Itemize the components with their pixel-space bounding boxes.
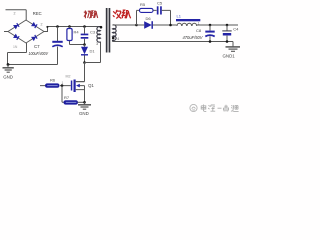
svg-text:1N: 1N bbox=[13, 45, 18, 49]
capacitor C4 output ceramic bbox=[222, 25, 231, 42]
polarity dot primary bbox=[100, 26, 103, 29]
wire secondary bottom rail bbox=[113, 41, 234, 43]
transistor Q1 MOSFET bbox=[71, 80, 85, 103]
junction node D6 anode bbox=[135, 24, 138, 27]
svg-text:C4: C4 bbox=[233, 27, 239, 32]
wire secondary top to D6 bbox=[113, 24, 137, 26]
junction node clamp R tap bbox=[68, 25, 71, 28]
transformer secondary winding bbox=[113, 25, 117, 42]
svg-text:3: 3 bbox=[96, 42, 98, 46]
svg-text:C3: C3 bbox=[90, 30, 96, 35]
svg-text:Q1: Q1 bbox=[88, 83, 94, 88]
diode D1 clamp bbox=[81, 45, 88, 63]
polarity dot secondary bbox=[112, 37, 115, 40]
svg-text:1: 1 bbox=[62, 81, 64, 85]
junction node C4 bottom bbox=[226, 40, 229, 43]
svg-text:C5: C5 bbox=[157, 1, 163, 6]
wire C7 branch bbox=[57, 27, 59, 65]
ground GND left bbox=[3, 65, 14, 73]
svg-text:GND: GND bbox=[3, 75, 13, 80]
junction node drain bbox=[83, 61, 86, 64]
svg-text:2: 2 bbox=[14, 12, 16, 16]
svg-text:GND1: GND1 bbox=[223, 54, 236, 59]
wire bridge output to top rail bbox=[44, 27, 101, 33]
svg-text:R5: R5 bbox=[140, 2, 146, 7]
junction node snubber-diode bbox=[169, 24, 172, 27]
transformer primary winding bbox=[97, 27, 101, 43]
wire drain jog to primary bottom bbox=[85, 42, 101, 63]
watermark logo circle bbox=[190, 104, 197, 111]
bridge rectifier REC diamond outline bbox=[8, 20, 44, 43]
svg-text:4: 4 bbox=[117, 37, 119, 41]
capacitor C8 output electrolytic bbox=[205, 25, 214, 42]
svg-text:GND: GND bbox=[79, 111, 89, 116]
svg-text:C7: C7 bbox=[34, 44, 40, 49]
junction node source bbox=[83, 101, 86, 104]
junction node C8 top bbox=[209, 24, 212, 27]
svg-text:L1: L1 bbox=[177, 14, 182, 19]
ground GND1 right bbox=[226, 42, 241, 52]
label 次级 secondary (red) bbox=[113, 10, 131, 19]
wire bridge bottom to gnd rail bbox=[8, 43, 58, 65]
junction node C4 top bbox=[226, 24, 229, 27]
ground GND source bbox=[78, 102, 91, 109]
junction node clamp-diode bbox=[83, 43, 86, 46]
junction node gnd-left bbox=[7, 63, 10, 66]
svg-text:D6: D6 bbox=[146, 16, 152, 21]
svg-text:C8: C8 bbox=[196, 28, 202, 33]
resistor R4 clamp bbox=[67, 27, 72, 45]
resistor R6 gate bbox=[40, 83, 71, 87]
wire snubber left vertical bbox=[136, 10, 138, 25]
svg-text:470uF/50V: 470uF/50V bbox=[183, 35, 204, 40]
diode bridge D-bottomleft bbox=[13, 34, 19, 40]
watermark text 电源一点通 bbox=[201, 105, 238, 112]
diode D6 output bbox=[137, 21, 177, 29]
wire gate to pulldown bbox=[62, 86, 64, 103]
junction node clamp C tap bbox=[83, 25, 86, 28]
junction node gate bbox=[61, 84, 64, 87]
transformer T1 core bbox=[106, 8, 108, 53]
label 初级 primary (red) bbox=[84, 11, 98, 19]
wire drain vertical bbox=[76, 63, 85, 82]
svg-text:R4: R4 bbox=[74, 30, 80, 35]
svg-text:100uF/400V: 100uF/400V bbox=[29, 51, 50, 56]
svg-text:R6: R6 bbox=[50, 78, 56, 83]
svg-text:REC: REC bbox=[33, 11, 42, 16]
capacitor C3 clamp bbox=[81, 27, 89, 45]
wire clamp bottom link bbox=[70, 44, 85, 46]
diode bridge D-bottomright bbox=[31, 35, 37, 41]
wire bridge left vertex stub bbox=[4, 31, 8, 33]
junction node C7 tap bbox=[56, 25, 59, 28]
svg-text:M2: M2 bbox=[66, 75, 71, 79]
junction node C8 bottom bbox=[209, 40, 212, 43]
junction node bridge-rail corner bbox=[46, 26, 48, 28]
resistor R5 snubber bbox=[137, 8, 157, 12]
diode bridge D-topleft bbox=[13, 23, 19, 29]
svg-text:2: 2 bbox=[41, 23, 43, 27]
capacitor C5 snubber bbox=[157, 6, 171, 25]
diode bridge D-topright bbox=[31, 22, 37, 28]
svg-text:R7: R7 bbox=[64, 95, 70, 100]
capacitor C7 bulk electrolytic bbox=[52, 41, 62, 47]
inductor L1 bbox=[176, 19, 200, 25]
wire output rail bbox=[196, 24, 238, 26]
svg-text:D1: D1 bbox=[90, 49, 96, 54]
wire AC input top-left bbox=[6, 10, 27, 20]
resistor R7 gate pulldown bbox=[64, 100, 85, 104]
